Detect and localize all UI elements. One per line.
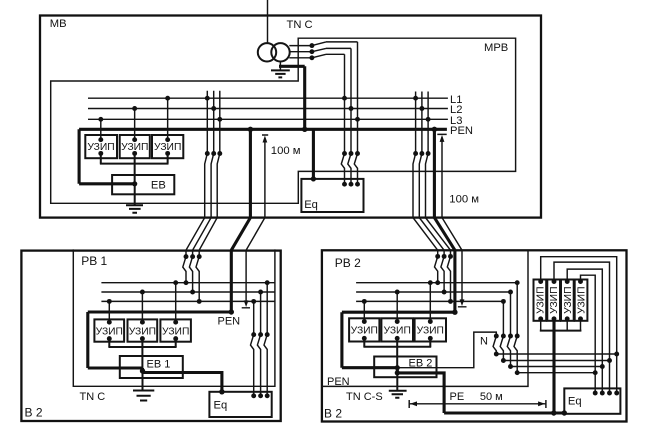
svg-text:TN C-S: TN C-S [346,391,383,403]
svg-text:УЗИП: УЗИП [549,287,560,314]
svg-text:PEN: PEN [218,316,241,328]
svg-text:В 2: В 2 [324,407,342,421]
svg-text:Eq: Eq [214,400,228,412]
svg-text:PB 1: PB 1 [81,254,107,268]
svg-text:PE: PE [450,391,465,403]
svg-text:PEN: PEN [327,376,350,388]
svg-text:Eq: Eq [304,199,318,211]
svg-text:100 м: 100 м [449,193,479,205]
svg-text:УЗИП: УЗИП [154,142,181,153]
svg-text:Eq: Eq [568,396,582,408]
svg-text:MB: MB [50,18,67,30]
svg-text:УЗИП: УЗИП [535,287,546,314]
svg-text:PB 2: PB 2 [335,256,361,270]
svg-text:TN C: TN C [287,19,313,31]
svg-text:EB: EB [151,179,166,191]
svg-text:УЗИП: УЗИП [577,287,588,314]
svg-text:100 м: 100 м [271,145,301,157]
svg-text:УЗИП: УЗИП [563,287,574,314]
svg-text:УЗИП: УЗИП [351,326,378,337]
svg-text:TN C: TN C [80,391,106,403]
svg-text:N: N [480,336,488,348]
svg-text:50 м: 50 м [480,391,503,403]
svg-text:PEN: PEN [450,125,473,137]
svg-text:УЗИП: УЗИП [121,142,148,153]
svg-text:УЗИП: УЗИП [417,326,444,337]
svg-text:MPB: MPB [484,42,508,54]
svg-text:УЗИП: УЗИП [129,326,156,337]
svg-text:EB 2: EB 2 [409,358,433,370]
svg-text:УЗИП: УЗИП [162,326,189,337]
svg-text:УЗИП: УЗИП [96,326,123,337]
svg-text:УЗИП: УЗИП [384,326,411,337]
svg-text:В 2: В 2 [25,406,43,420]
svg-text:EB 1: EB 1 [147,359,171,371]
svg-text:УЗИП: УЗИП [87,142,114,153]
